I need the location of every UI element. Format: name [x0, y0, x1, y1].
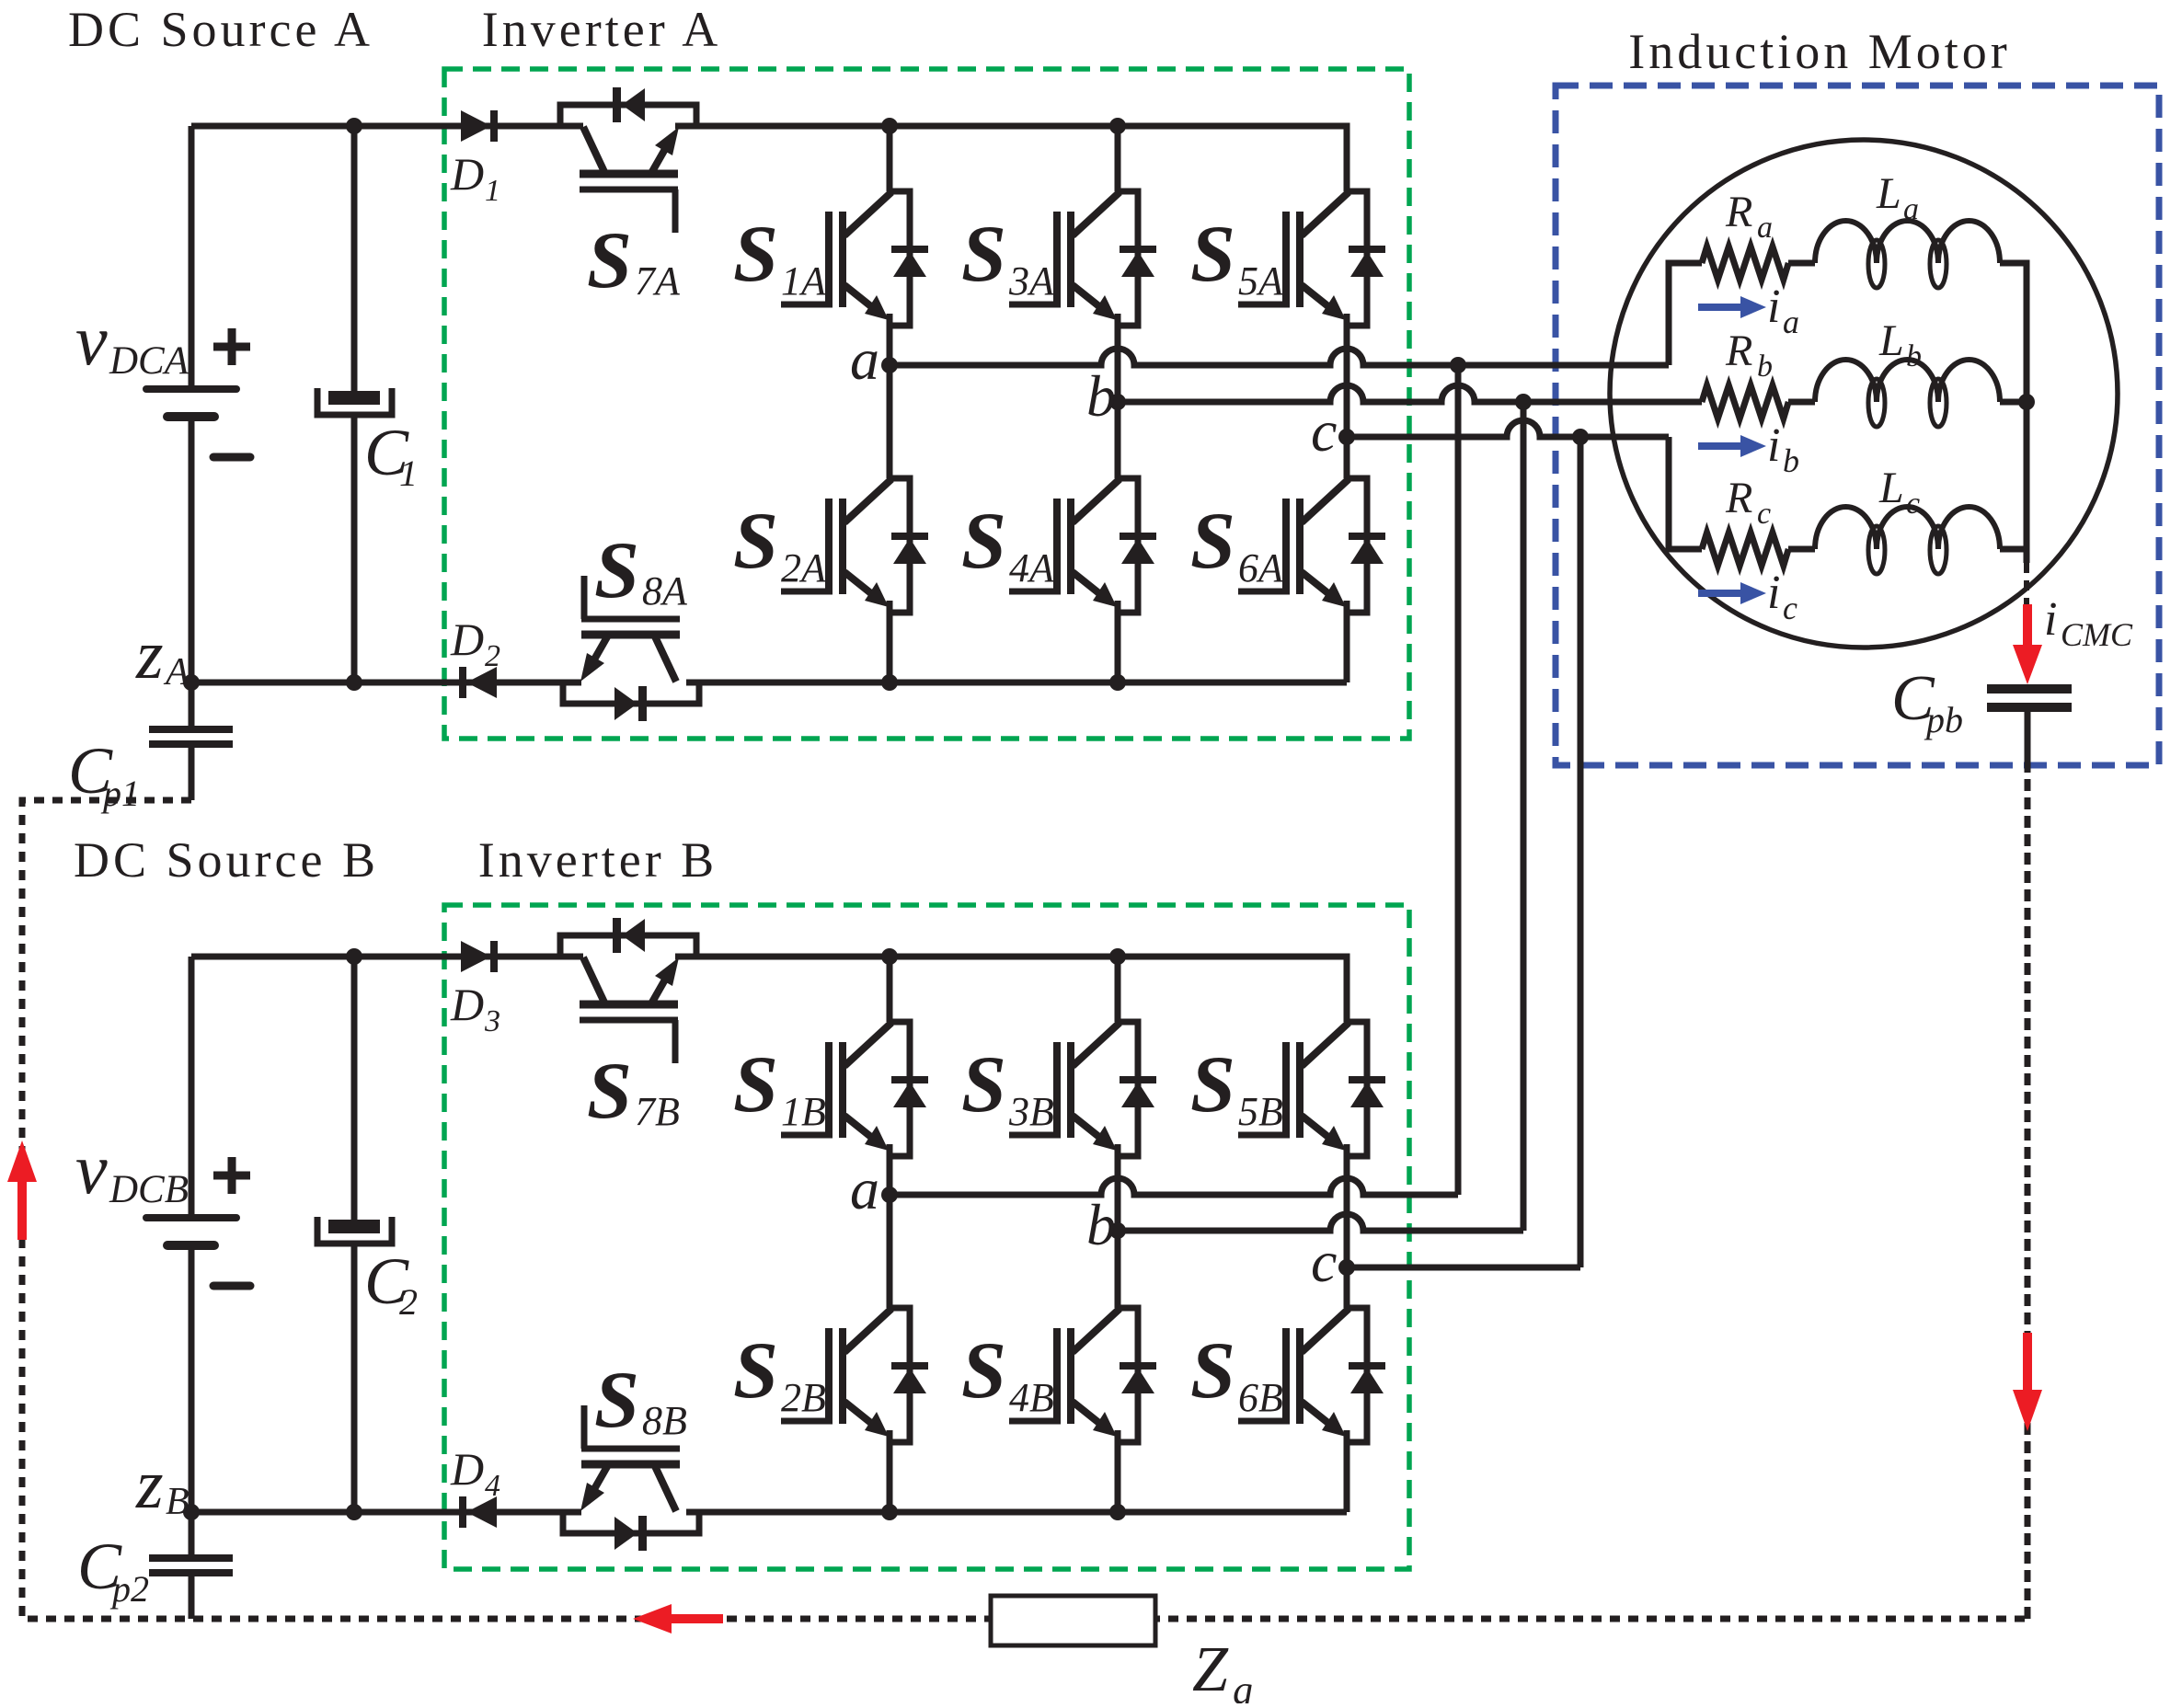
blue arrow ic: [1698, 590, 1743, 597]
wire: leg c vertical segments (B): [1344, 1144, 1350, 1308]
resistor Rc: [1702, 533, 1788, 566]
wire: bottom rail A inside inverter: [686, 680, 1347, 686]
inductor La: [1815, 221, 2000, 263]
node: phase a tie point: [1450, 357, 1466, 373]
svg-text:b: b: [1757, 350, 1773, 384]
svg-text:4A: 4A: [1009, 545, 1055, 590]
svg-text:b: b: [1783, 442, 1799, 479]
svg-text:S: S: [733, 1326, 778, 1416]
node: bottom rail junction leg b (A): [1109, 674, 1126, 691]
node: bottom rail junction leg b (B): [1109, 1504, 1126, 1520]
svg-text:2: 2: [399, 1281, 418, 1323]
svg-text:3A: 3A: [1008, 258, 1055, 304]
svg-text:i: i: [1767, 419, 1780, 472]
wire: top rail A inside inverter: [675, 126, 1347, 191]
transistor S2B (IGBT with antiparallel diode): [781, 1308, 928, 1444]
svg-text:1: 1: [399, 453, 418, 494]
node: phase c tie point: [1572, 429, 1589, 445]
svg-text:p1: p1: [100, 773, 140, 814]
label - (battery A negative): [213, 453, 250, 462]
svg-text:c: c: [1311, 398, 1337, 464]
svg-text:S: S: [1190, 497, 1235, 586]
wire: phase a entry bracket: [1669, 263, 1702, 365]
wire: phase c (inverter A to motor): [1347, 420, 1669, 437]
inductor Lc: [1815, 507, 2000, 549]
wire: phase c entry bracket: [1669, 437, 1702, 549]
svg-text:D: D: [450, 979, 484, 1030]
capacitor C1: [351, 126, 358, 391]
transistor S3B (IGBT with antiparallel diode): [1009, 1022, 1156, 1158]
transistor S5B (IGBT with antiparallel diode): [1238, 1022, 1385, 1158]
transistor S4B (IGBT with antiparallel diode): [1009, 1308, 1156, 1444]
red arrow: CM current up (left side): [17, 1177, 27, 1240]
svg-text:2B: 2B: [781, 1375, 826, 1420]
svg-text:S: S: [1190, 1040, 1235, 1129]
svg-text:S: S: [587, 216, 632, 305]
wire: phase c (inverter B): [1347, 1265, 1580, 1271]
battery v_DCA: [189, 126, 195, 386]
wire: top rail B from battery to inverter: [191, 954, 583, 960]
svg-text:pb: pb: [1924, 699, 1963, 740]
wire: phase a (inverter B): [890, 1178, 1458, 1195]
transistor S6B (IGBT with antiparallel diode): [1238, 1308, 1385, 1444]
transistor S2A (IGBT with antiparallel diode): [781, 478, 928, 614]
svg-text:B: B: [166, 1481, 189, 1523]
blue arrow ia: [1698, 304, 1743, 311]
inductor Lb: [1815, 360, 2000, 402]
label - (battery B negative): [213, 1282, 250, 1290]
svg-text:a: a: [1903, 192, 1919, 226]
svg-text:z: z: [135, 1446, 164, 1523]
svg-text:S: S: [961, 497, 1006, 586]
svg-text:S: S: [961, 210, 1006, 299]
transistor S8A (series IGBT with antiparallel diode, bottom rail): [563, 576, 699, 721]
svg-text:S: S: [1190, 210, 1235, 299]
svg-text:a: a: [850, 327, 879, 392]
svg-text:R: R: [1725, 327, 1752, 375]
svg-text:Inverter A: Inverter A: [482, 2, 721, 57]
wire: motor neutral bus: [2000, 263, 2027, 563]
wire: parasitic common-mode return path (dotted loop): [22, 800, 2027, 1619]
svg-text:L: L: [1878, 316, 1904, 365]
wire: Ra to La: [1788, 260, 1815, 267]
svg-text:CMC: CMC: [2061, 616, 2133, 653]
wire: leg c vertical segments (A): [1344, 314, 1350, 478]
svg-text:S: S: [1190, 1326, 1235, 1416]
wire: bottom rail A from battery to inverter: [191, 680, 581, 686]
red arrow: CM current left (bottom): [664, 1614, 723, 1623]
svg-text:2: 2: [485, 639, 500, 673]
diode D4: [466, 1496, 497, 1528]
node c (B): [1338, 1259, 1355, 1276]
wire: leg b vertical segments (A): [1115, 126, 1121, 191]
svg-text:D: D: [450, 1443, 484, 1495]
svg-text:i: i: [1767, 567, 1780, 619]
wire: link phase c of B to phase c of A: [1578, 437, 1584, 1267]
red arrow: CM current down (right side): [2023, 1333, 2032, 1394]
node zB: [183, 1504, 200, 1520]
svg-text:D: D: [450, 613, 484, 665]
svg-text:c: c: [1906, 487, 1920, 521]
svg-text:DCB: DCB: [109, 1168, 189, 1211]
transistor S7A (series IGBT with antiparallel diode, top rail): [560, 87, 696, 233]
svg-text:S: S: [733, 210, 778, 299]
svg-text:8A: 8A: [642, 568, 688, 613]
svg-text:7B: 7B: [635, 1089, 680, 1134]
wire: phase b (inverter B): [1118, 1214, 1523, 1231]
node zA: [183, 674, 200, 691]
wire: neutral to Cpb (dashed): [2024, 563, 2029, 604]
svg-text:S: S: [594, 1356, 639, 1445]
label + (battery B positive): [213, 1157, 250, 1194]
box: Inverter A boundary (green dashed): [444, 69, 1409, 739]
resistor Rb: [1702, 385, 1788, 418]
svg-text:a: a: [1757, 211, 1773, 245]
svg-text:Induction Motor: Induction Motor: [1628, 24, 2010, 79]
wire: leg b vertical segments (B): [1115, 957, 1121, 1022]
diode D3: [461, 941, 491, 972]
svg-text:4: 4: [485, 1469, 500, 1503]
motor stator circle: [1610, 140, 2118, 648]
svg-text:1B: 1B: [781, 1089, 826, 1134]
node b (A): [1109, 394, 1126, 410]
capacitor Cp2 (parasitic): [189, 1512, 195, 1554]
wire: phase a (inverter A to motor): [890, 349, 1669, 365]
capacitor C2: [351, 957, 358, 1220]
svg-text:Inverter B: Inverter B: [478, 832, 718, 888]
svg-text:S: S: [961, 1040, 1006, 1129]
svg-text:p2: p2: [109, 1568, 149, 1610]
svg-text:v: v: [75, 1129, 108, 1209]
node c (A): [1338, 429, 1355, 445]
wire: link phase a of B to phase a of A: [1455, 365, 1462, 1195]
wire: top rail A from battery to inverter: [191, 123, 583, 130]
box: Inverter B boundary (green dashed): [444, 905, 1409, 1569]
svg-text:7A: 7A: [635, 258, 681, 304]
transistor S4A (IGBT with antiparallel diode): [1009, 478, 1156, 614]
svg-text:Z: Z: [1192, 1634, 1229, 1703]
blue arrow ib: [1698, 442, 1743, 450]
svg-text:L: L: [1876, 169, 1901, 218]
svg-text:i: i: [2044, 593, 2057, 646]
wire: leg a vertical segments (A): [887, 126, 893, 191]
svg-text:S: S: [587, 1047, 632, 1136]
svg-text:5B: 5B: [1238, 1089, 1283, 1134]
node: top rail junction leg a (B): [881, 948, 898, 965]
wire: link phase b of B to phase b of A: [1521, 402, 1527, 1231]
transistor S7B (series IGBT with antiparallel diode, top rail): [560, 918, 696, 1063]
svg-text:S: S: [733, 1040, 778, 1129]
svg-text:g: g: [1233, 1668, 1253, 1703]
svg-text:L: L: [1878, 464, 1904, 512]
node: C2 bottom junction: [346, 1504, 362, 1520]
transistor S1B (IGBT with antiparallel diode): [781, 1022, 928, 1158]
node: C1 top junction: [346, 118, 362, 134]
box: Induction Motor boundary (blue dashed): [1556, 86, 2159, 765]
svg-text:S: S: [733, 497, 778, 586]
node: top rail junction leg a (A): [881, 118, 898, 134]
node: C1 bottom junction: [346, 674, 362, 691]
wire: bottom rail B inside inverter: [686, 1509, 1347, 1516]
svg-text:DC Source B: DC Source B: [74, 832, 379, 888]
node: neutral junction at Lb: [2018, 394, 2035, 410]
red arrow iCMC: [2023, 604, 2032, 655]
svg-text:S: S: [594, 526, 639, 615]
resistor Zg (ground impedance): [991, 1596, 1155, 1645]
transistor S8B (series IGBT with antiparallel diode, bottom rail): [563, 1405, 699, 1551]
svg-text:i: i: [1767, 281, 1780, 333]
label + (battery A positive): [213, 328, 250, 365]
svg-text:b: b: [1086, 1192, 1116, 1257]
transistor S6A (IGBT with antiparallel diode): [1238, 478, 1385, 614]
svg-text:S: S: [961, 1326, 1006, 1416]
svg-text:c: c: [1311, 1229, 1337, 1294]
transistor S5A (IGBT with antiparallel diode): [1238, 191, 1385, 327]
svg-text:A: A: [163, 651, 189, 694]
svg-text:3B: 3B: [1008, 1089, 1054, 1134]
node: bottom rail junction leg a (B): [881, 1504, 898, 1520]
wire: Rb to Lb: [1788, 399, 1815, 406]
svg-text:c: c: [1757, 497, 1771, 531]
svg-text:DCA: DCA: [109, 339, 189, 383]
svg-text:DC Source A: DC Source A: [68, 2, 373, 57]
svg-text:z: z: [135, 616, 164, 694]
node b (B): [1109, 1222, 1126, 1239]
svg-text:b: b: [1906, 339, 1922, 373]
resistor Ra: [1702, 246, 1788, 280]
capacitor Cp1 (parasitic): [189, 682, 195, 726]
svg-text:c: c: [1783, 590, 1797, 626]
svg-text:4B: 4B: [1009, 1375, 1054, 1420]
diode D1: [461, 110, 491, 142]
wire: bottom rail B from battery to inverter: [191, 1509, 581, 1516]
node: top rail junction leg b (B): [1109, 948, 1126, 965]
svg-text:5A: 5A: [1238, 258, 1284, 304]
svg-text:1: 1: [485, 174, 500, 208]
svg-text:1A: 1A: [781, 258, 827, 304]
svg-text:2A: 2A: [781, 545, 827, 590]
node: phase b tie point: [1515, 394, 1532, 410]
node: C2 top junction: [346, 948, 362, 965]
svg-text:8B: 8B: [642, 1398, 687, 1443]
svg-text:6A: 6A: [1238, 545, 1284, 590]
svg-text:R: R: [1725, 474, 1752, 522]
node a (B): [881, 1186, 898, 1203]
transistor S3A (IGBT with antiparallel diode): [1009, 191, 1156, 327]
wire: top rail B inside inverter: [675, 957, 1347, 1022]
wire: phase b (inverter A to motor): [1118, 385, 1702, 402]
svg-text:R: R: [1725, 188, 1752, 236]
capacitor Cpb (parasitic): [1987, 684, 2072, 694]
wire: leg a vertical segments (B): [887, 957, 893, 1022]
node a (A): [881, 357, 898, 373]
diode D2: [466, 667, 497, 698]
transistor S1A (IGBT with antiparallel diode): [781, 191, 928, 327]
svg-text:a: a: [1783, 304, 1799, 340]
node: bottom rail junction leg a (A): [881, 674, 898, 691]
svg-text:v: v: [75, 300, 108, 380]
svg-text:D: D: [450, 148, 484, 200]
svg-text:6B: 6B: [1238, 1375, 1283, 1420]
node: top rail junction leg b (A): [1109, 118, 1126, 134]
battery v_DCB: [189, 957, 195, 1215]
svg-text:a: a: [850, 1156, 879, 1221]
svg-text:b: b: [1086, 363, 1116, 429]
wire: Rc to Lc: [1788, 546, 1815, 553]
svg-text:3: 3: [484, 1004, 500, 1038]
